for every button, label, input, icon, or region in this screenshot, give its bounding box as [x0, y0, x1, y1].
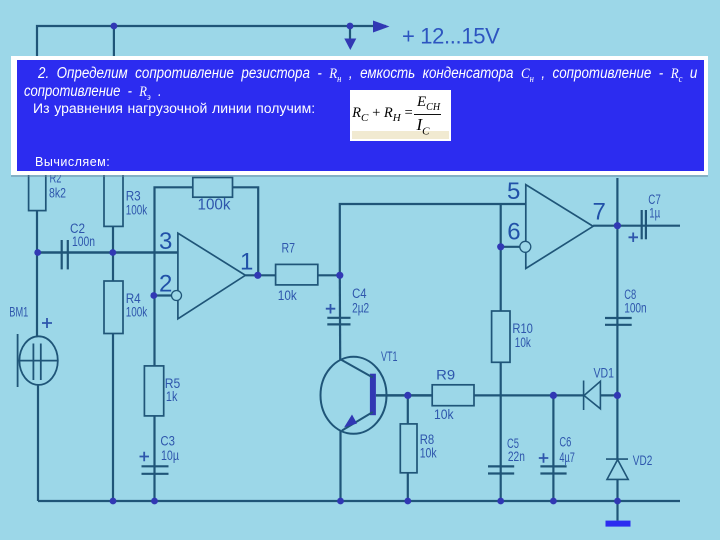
svg-text:VD2: VD2 — [633, 453, 653, 468]
svg-text:C4: C4 — [352, 286, 367, 301]
svg-text:C3: C3 — [160, 434, 175, 449]
svg-text:+ 12...15V: + 12...15V — [402, 24, 500, 49]
svg-text:100n: 100n — [624, 301, 647, 316]
svg-text:10k: 10k — [434, 406, 454, 422]
svg-text:5: 5 — [507, 178, 520, 205]
svg-text:100k: 100k — [126, 305, 148, 320]
svg-text:2: 2 — [159, 271, 172, 298]
svg-text:10µ: 10µ — [161, 448, 179, 463]
svg-text:10k: 10k — [420, 446, 437, 461]
svg-text:8k2: 8k2 — [49, 186, 66, 201]
svg-text:10k: 10k — [278, 288, 297, 303]
svg-text:3: 3 — [159, 228, 172, 255]
svg-text:R9: R9 — [436, 367, 455, 383]
svg-text:C6: C6 — [559, 435, 571, 450]
svg-text:VD1: VD1 — [594, 366, 615, 381]
svg-text:6: 6 — [507, 219, 520, 246]
svg-text:BM1: BM1 — [9, 305, 28, 320]
svg-text:1µ: 1µ — [649, 206, 660, 221]
svg-text:2µ2: 2µ2 — [352, 301, 369, 316]
svg-text:VT1: VT1 — [381, 349, 398, 364]
svg-text:R7: R7 — [282, 241, 296, 256]
svg-text:10k: 10k — [515, 335, 531, 350]
svg-text:1: 1 — [240, 248, 253, 275]
svg-text:22n: 22n — [508, 449, 525, 464]
svg-text:100k: 100k — [198, 197, 231, 214]
svg-text:7: 7 — [593, 199, 606, 226]
svg-text:1k: 1k — [166, 389, 178, 404]
svg-text:R3: R3 — [126, 189, 141, 204]
svg-text:R10: R10 — [512, 321, 533, 336]
svg-text:4µ7: 4µ7 — [559, 450, 575, 465]
svg-text:100n: 100n — [72, 234, 95, 249]
svg-text:100k: 100k — [126, 203, 148, 218]
